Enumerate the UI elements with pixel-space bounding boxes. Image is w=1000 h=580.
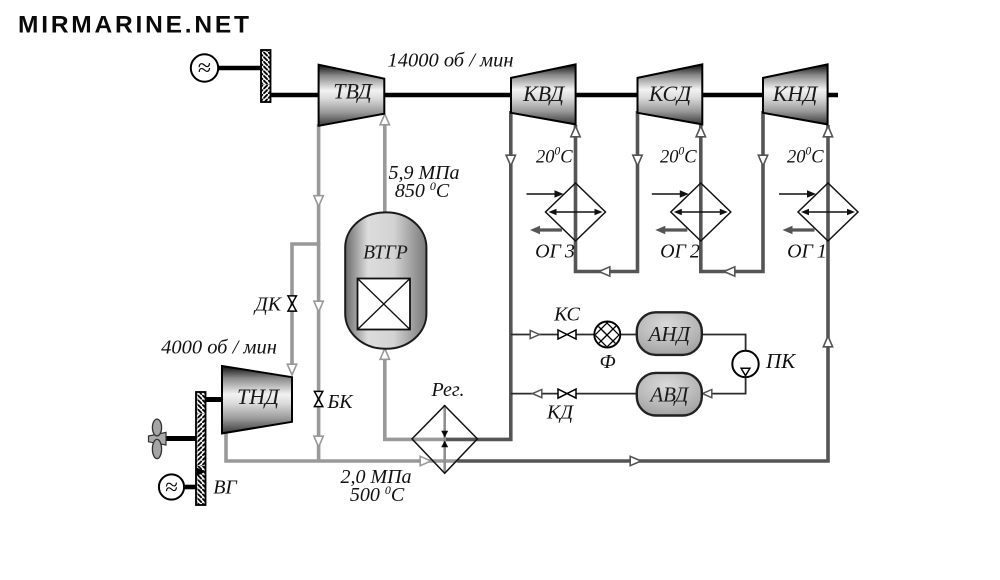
svg-text:≈: ≈ bbox=[198, 56, 211, 82]
svg-text:ОГ 3: ОГ 3 bbox=[535, 241, 575, 263]
flow arrow up into KND bbox=[823, 126, 832, 137]
svg-text:ОГ 1: ОГ 1 bbox=[787, 241, 827, 263]
gearbox wall bottom bbox=[196, 392, 206, 505]
svg-text:КВД: КВД bbox=[522, 81, 565, 106]
flow arrow left on OG2 connector bbox=[724, 267, 735, 276]
wire: TVD exhaust down to main exhaust line bbox=[317, 124, 321, 460]
svg-text:ВГ: ВГ bbox=[213, 477, 238, 499]
svg-text:ОГ 2: ОГ 2 bbox=[660, 241, 700, 263]
valve DK bbox=[288, 296, 296, 311]
svg-text:Рег.: Рег. bbox=[431, 379, 465, 401]
svg-text:ВТГР: ВТГР bbox=[363, 243, 408, 264]
flow arrow left into AVD bbox=[703, 390, 712, 398]
wire: KS charge line bbox=[511, 334, 640, 336]
wire: Reg outlet to OG1 riser and KND (dark gray) bbox=[458, 125, 829, 461]
reactor vessel VTGR bbox=[345, 212, 426, 348]
TND shaft bbox=[203, 397, 224, 402]
flow arrow down into TND (DK branch) bbox=[287, 364, 296, 375]
flow arrow right on bottom line bbox=[630, 456, 641, 465]
wire: KSD discharge down, left, up through OG3 to KVD bbox=[576, 111, 638, 272]
flow arrow down on TVD exhaust mid bbox=[314, 301, 323, 312]
flow arrow up into KVD bbox=[571, 126, 580, 137]
svg-text:АВД: АВД bbox=[648, 383, 690, 407]
svg-text:БК: БК bbox=[326, 391, 354, 413]
cooler OG3 bbox=[527, 183, 606, 241]
turbine TVD bbox=[319, 65, 385, 126]
wire: Reg left vertex to VTGR bottom bbox=[385, 350, 446, 439]
svg-text:КС: КС bbox=[553, 304, 580, 326]
svg-text:ТВД: ТВД bbox=[333, 79, 373, 104]
filter F bbox=[584, 312, 630, 352]
flow arrow down on KND discharge bbox=[758, 155, 767, 166]
flow arrow down on KVD discharge bbox=[506, 155, 515, 166]
regenerator Reg bbox=[412, 405, 477, 473]
flow arrow right on KS line bbox=[530, 330, 539, 338]
accumulator AND bbox=[637, 312, 702, 355]
wire: TND exhaust to Reg (light gray) bbox=[226, 430, 459, 461]
svg-text:500 0С: 500 0С bbox=[350, 483, 405, 506]
svg-text:14000 об / мин: 14000 об / мин bbox=[387, 50, 513, 72]
flow arrow down on TVD exhaust bbox=[314, 196, 323, 207]
flow arrow left on KD line bbox=[533, 390, 542, 398]
flow arrow up into KSD bbox=[696, 126, 705, 137]
compressor KVD bbox=[511, 64, 576, 124]
svg-text:ПК: ПК bbox=[765, 349, 796, 373]
wall marker triangle bbox=[197, 468, 205, 476]
cooler OG2 bbox=[652, 183, 731, 241]
compressor KSD bbox=[638, 64, 703, 124]
compressor KND bbox=[763, 64, 828, 124]
generator G top bbox=[191, 54, 218, 81]
svg-text:Ф: Ф bbox=[599, 351, 615, 373]
wire: branch to DK valve bbox=[292, 244, 320, 372]
svg-text:ТНД: ТНД bbox=[237, 384, 280, 409]
valve KS bbox=[558, 330, 576, 339]
valve BK bbox=[314, 391, 322, 406]
wire: KVD discharge down to Reg right vertex (dark gray) bbox=[444, 111, 511, 439]
svg-text:ДК: ДК bbox=[253, 294, 283, 316]
flow arrow down on KSD discharge bbox=[633, 155, 642, 166]
wire: KND discharge down, left, up through OG2 to KSD bbox=[701, 111, 763, 272]
VG generator shaft bbox=[182, 485, 198, 490]
svg-text:КД: КД bbox=[546, 402, 574, 424]
accumulator AVD bbox=[637, 373, 702, 416]
generator VG bbox=[159, 474, 184, 499]
svg-text:АНД: АНД bbox=[647, 322, 692, 346]
svg-text:850 0С: 850 0С bbox=[395, 179, 450, 202]
gearbox wall top bbox=[261, 50, 271, 102]
flow arrow up into TVD bbox=[380, 114, 389, 125]
cooler OG1 bbox=[779, 183, 858, 241]
turbine TND bbox=[222, 366, 292, 433]
wire: AVD to KD discharge line bbox=[511, 393, 640, 395]
generator shaft top bbox=[216, 66, 263, 71]
svg-text:MIRMARINE.NET: MIRMARINE.NET bbox=[18, 12, 252, 39]
wire: PK to AVD bbox=[700, 376, 746, 394]
flow arrow right into Reg (hot side) bbox=[420, 456, 431, 465]
propeller bbox=[149, 419, 167, 459]
valve KD bbox=[558, 389, 576, 398]
main shaft 14000 rpm bbox=[266, 93, 838, 98]
wire: AND to PK bbox=[700, 335, 746, 353]
flow arrow left on OG3 connector bbox=[599, 267, 610, 276]
svg-text:≈: ≈ bbox=[165, 475, 178, 500]
reactor core square bbox=[358, 279, 411, 330]
propeller shaft bbox=[160, 436, 198, 441]
svg-text:4000 об / мин: 4000 об / мин bbox=[161, 337, 277, 359]
flow arrow down on BK line bbox=[314, 436, 323, 447]
svg-text:КНД: КНД bbox=[772, 81, 818, 106]
wire: VTGR top to TVD (hot gas, light gray) bbox=[383, 124, 387, 213]
compressor PK bbox=[732, 351, 758, 377]
svg-text:КСД: КСД bbox=[648, 81, 692, 106]
flow arrow up into VTGR bottom bbox=[380, 349, 389, 360]
flow arrow up on OG1 riser bbox=[823, 336, 832, 347]
